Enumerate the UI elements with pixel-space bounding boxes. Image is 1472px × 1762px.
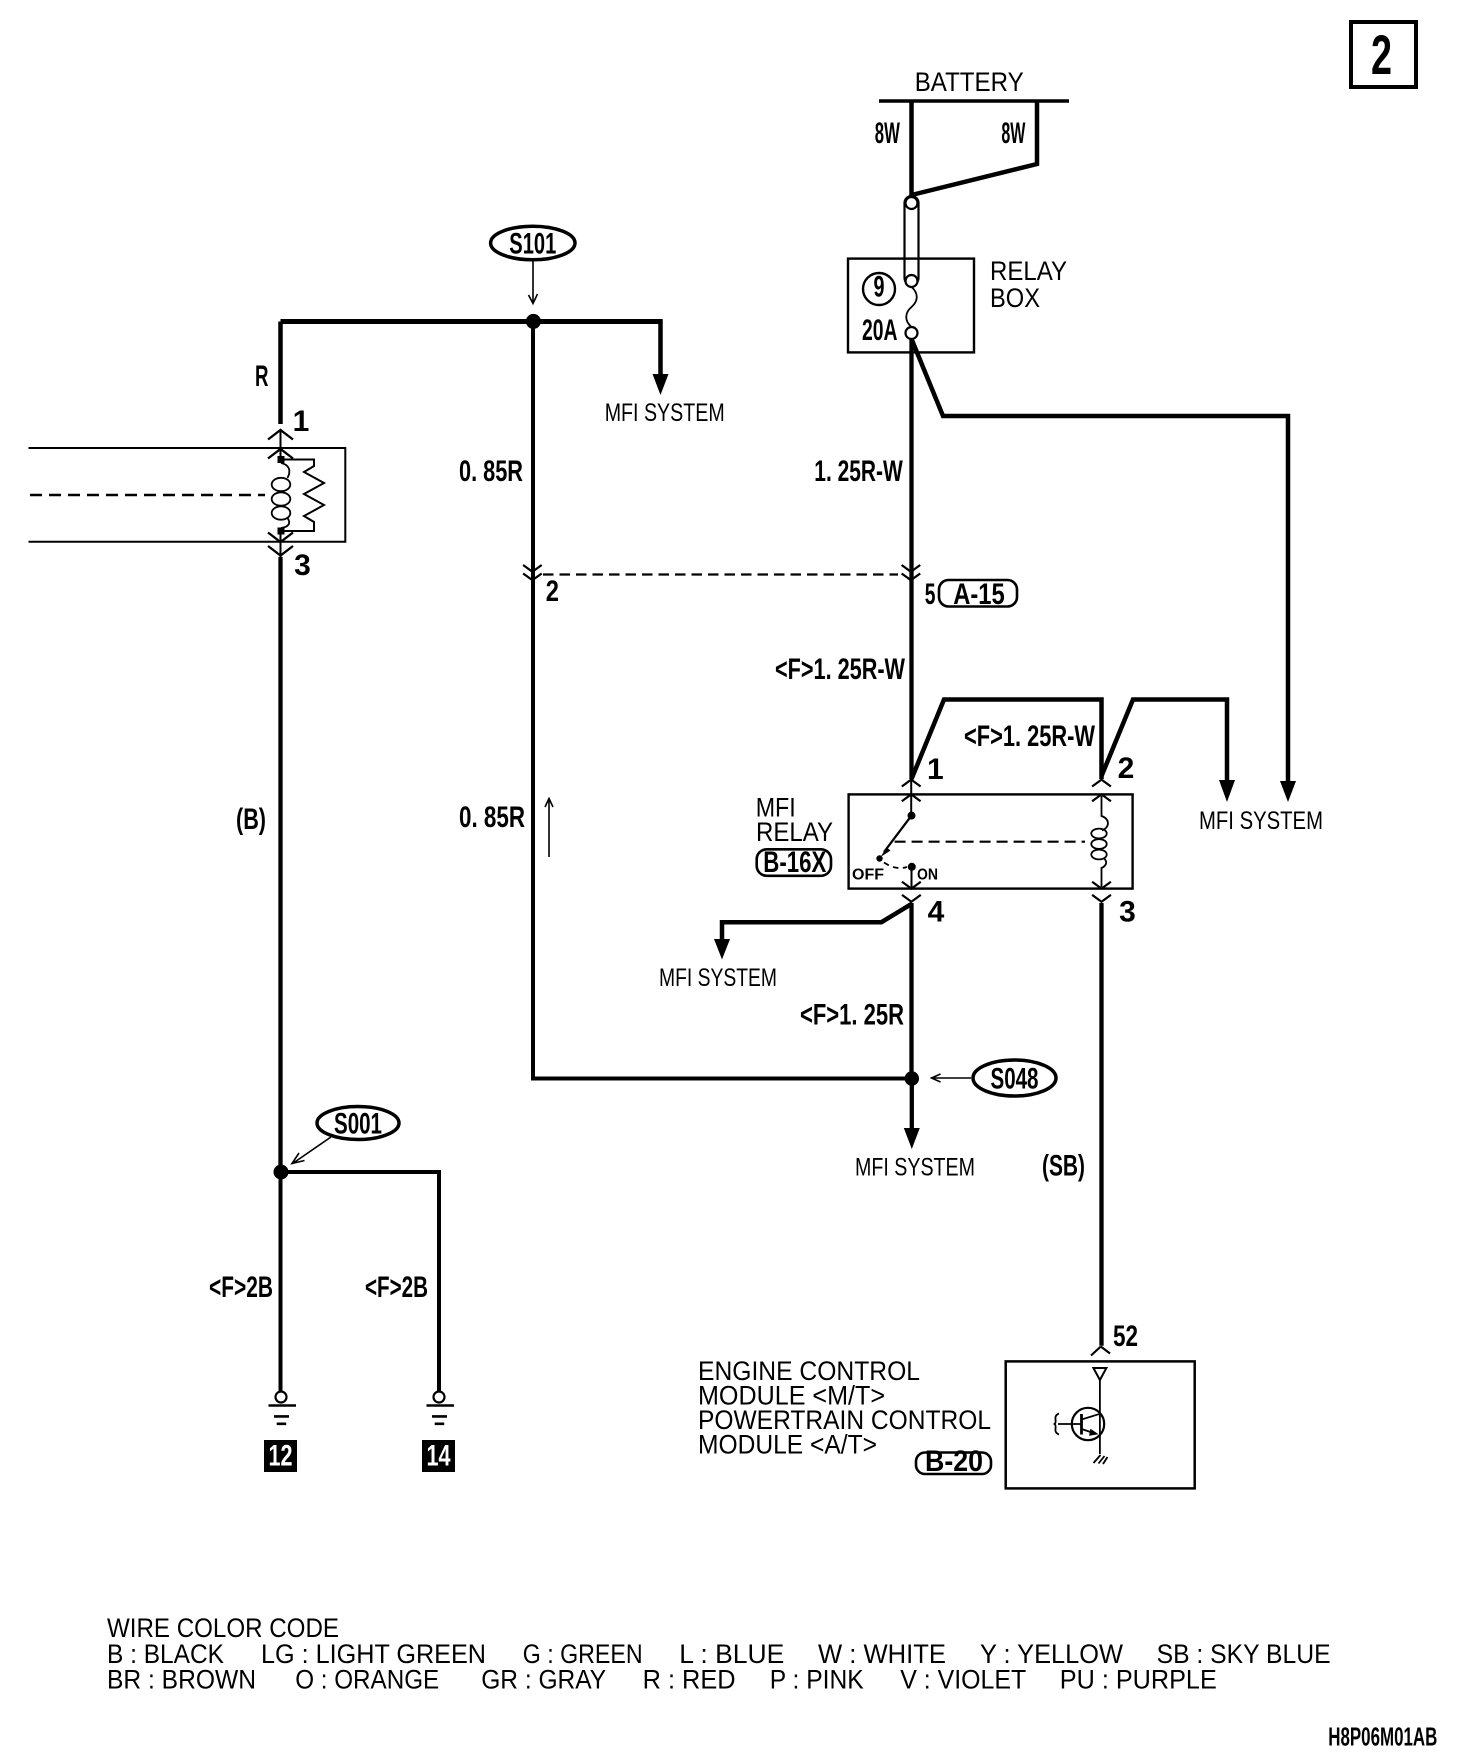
wire pin2 riser to MFI SYSTEM arrow [1102, 700, 1228, 782]
svg-text:0. 85R: 0. 85R [459, 801, 525, 834]
svg-text:20A: 20A [862, 314, 898, 347]
wire coil feed R [278, 322, 283, 425]
connector chevrons relay pin 2 [1092, 780, 1111, 802]
wire S001 branch right [281, 1172, 439, 1392]
connector chevrons coil pin 3 [268, 533, 293, 556]
svg-text:BOX: BOX [990, 283, 1040, 313]
junction S001 node [274, 1165, 289, 1180]
fuse number circle 9 [863, 273, 895, 305]
transistor collector diagonal [1082, 1414, 1101, 1420]
S048 pointer arrow [932, 1074, 972, 1082]
ON contact node [908, 863, 916, 871]
dashed link line into coil [30, 494, 265, 496]
legend WIRE COLOR CODE [107, 1613, 1331, 1695]
svg-text:1. 25R-W: 1. 25R-W [814, 455, 903, 488]
switch to pin 4 line [911, 867, 913, 888]
svg-text:5: 5 [925, 578, 936, 611]
svg-text:P : PINK: P : PINK [770, 1665, 864, 1695]
arrowhead MFI SYSTEM (relay pin2 branch) [1219, 780, 1235, 802]
relay coil loops [1091, 829, 1106, 839]
switch feed line [910, 780, 912, 814]
svg-text:2: 2 [1371, 23, 1392, 86]
svg-text:MFI SYSTEM: MFI SYSTEM [605, 399, 725, 427]
svg-text:O : ORANGE: O : ORANGE [295, 1665, 439, 1695]
connector chevrons coil pin 1 [268, 430, 293, 459]
primary winding coil loops [281, 463, 289, 478]
wire pin4 branch to MFI SYSTEM [722, 904, 912, 940]
wire relay box branch diagonal [912, 339, 1289, 784]
dashed connector line A-15 [543, 573, 898, 575]
transistor base bar [1080, 1414, 1083, 1435]
OFF contact node [876, 855, 882, 861]
svg-text:<F>2B: <F>2B [365, 1271, 428, 1304]
svg-text:8W: 8W [1001, 117, 1025, 150]
svg-text:BR : BROWN: BR : BROWN [107, 1665, 256, 1695]
fuse element squiggle [906, 287, 917, 327]
connector chevrons relay pin 1 [902, 780, 921, 802]
junction S101 node [526, 314, 541, 329]
junction S048 node [905, 1071, 919, 1085]
ground 14 symbol [427, 1392, 455, 1424]
svg-text:MFI SYSTEM: MFI SYSTEM [855, 1154, 975, 1182]
svg-text:1: 1 [293, 405, 310, 438]
arrowhead MFI SYSTEM top [653, 374, 669, 395]
connector chevrons relay pin 3 [1092, 882, 1111, 902]
relay actuation dashed line [895, 841, 1085, 843]
coil bottom terminal square [278, 528, 285, 535]
dashed throw arc to ON [884, 863, 907, 869]
wire battery right 8W [912, 101, 1038, 195]
base lead break squiggle [1055, 1414, 1060, 1435]
fusible link terminal top [906, 197, 918, 209]
ignition coil component box (open left) [29, 448, 346, 542]
svg-text:V : VIOLET: V : VIOLET [900, 1665, 1026, 1695]
connector label B-16X [757, 849, 831, 876]
switch pivot node [908, 812, 916, 820]
wire MFI SYSTEM drop top [658, 319, 663, 375]
ECM box outline [1006, 1361, 1195, 1488]
svg-text:S001: S001 [334, 1108, 382, 1141]
svg-text:9: 9 [874, 271, 885, 304]
ECM internal ground hatch [1094, 1455, 1108, 1464]
svg-text:12: 12 [269, 1440, 293, 1473]
label ENGINE CONTROL MODULE [698, 1356, 991, 1459]
splice S001 ellipse [317, 1107, 399, 1140]
svg-text:(B): (B) [236, 803, 266, 836]
wire into coil box [280, 430, 282, 457]
wire S001 down to ground 12 [279, 1172, 283, 1392]
svg-text:MFI SYSTEM: MFI SYSTEM [1199, 807, 1323, 835]
connector chevrons 5 (main wire) [902, 565, 921, 580]
wire pin4 down to S048 junction [909, 903, 913, 1079]
wire main bus at S101 [281, 319, 661, 324]
svg-text:S101: S101 [509, 228, 556, 261]
svg-text:<F>1. 25R-W: <F>1. 25R-W [775, 653, 905, 686]
svg-text:2: 2 [1118, 752, 1135, 785]
wire battery left 8W [909, 101, 914, 196]
svg-text:0. 85R: 0. 85R [459, 455, 523, 488]
svg-text:1: 1 [927, 753, 944, 786]
svg-text:R: R [255, 360, 269, 393]
ground 12 symbol [269, 1392, 297, 1424]
ECM input triangle [1093, 1368, 1106, 1380]
coil top terminal square [278, 456, 285, 463]
connector label B-20 [916, 1453, 991, 1475]
svg-text:4: 4 [928, 896, 945, 929]
connector label A-15 [939, 580, 1017, 607]
transistor emitter diagonal with arrow [1082, 1429, 1096, 1434]
page number box 2 [1351, 22, 1416, 87]
svg-text:MODULE <A/T>: MODULE <A/T> [698, 1429, 877, 1459]
wire 0.85R vertical [531, 322, 535, 1077]
fusible link capsule [905, 196, 919, 285]
relay coil lead in [1102, 796, 1108, 831]
svg-text:14: 14 [427, 1440, 451, 1473]
ground label 12 [264, 1440, 297, 1473]
transistor Q collector line [1099, 1380, 1101, 1454]
relay box outline [848, 259, 974, 353]
transistor base lead [1058, 1423, 1082, 1425]
svg-text:A-15: A-15 [953, 578, 1005, 611]
wire MFI SYSTEM drop below S048 [910, 1079, 914, 1130]
relay coil lead out [1102, 859, 1107, 888]
svg-text:GR : GRAY: GR : GRAY [481, 1665, 606, 1695]
svg-text:B-20: B-20 [925, 1445, 983, 1478]
splice S048 ellipse [973, 1060, 1056, 1096]
switch arm (OFF position) [884, 816, 912, 852]
current direction thin arrow [545, 799, 553, 858]
svg-text:8W: 8W [875, 117, 900, 150]
ground label 14 [422, 1440, 455, 1473]
svg-text:2: 2 [546, 575, 559, 608]
wire pin1 riser to bus [912, 700, 1102, 780]
svg-text:<F>1. 25R: <F>1. 25R [800, 999, 904, 1032]
wire (B) ground feed [278, 557, 282, 1172]
wire pin3 down to ECM [1099, 903, 1103, 1346]
resistor parallel to coil [281, 460, 324, 532]
svg-text:(SB): (SB) [1042, 1150, 1085, 1183]
wire 0.85R elbow to S048 junction [533, 1074, 912, 1079]
svg-text:RELAY: RELAY [990, 256, 1067, 286]
wire out of coil box [280, 534, 282, 557]
svg-text:B-16X: B-16X [763, 846, 826, 879]
svg-text:<F>2B: <F>2B [209, 1271, 273, 1304]
transistor Q circle [1072, 1408, 1104, 1440]
splice S101 ellipse [491, 226, 575, 260]
S101 pointer arrow [529, 260, 538, 304]
connector chevrons relay pin 4 [902, 882, 921, 902]
svg-text:R : RED: R : RED [643, 1665, 736, 1695]
svg-text:OFF: OFF [852, 867, 884, 884]
svg-text:3: 3 [1119, 896, 1136, 929]
svg-text:MFI SYSTEM: MFI SYSTEM [659, 964, 777, 992]
svg-text:H8P06M01AB: H8P06M01AB [1328, 1722, 1437, 1752]
svg-text:S048: S048 [991, 1063, 1039, 1096]
switch arm arrowhead [881, 848, 891, 858]
wire main feed 1.25R-W down from fuse [909, 339, 913, 779]
svg-text:<F>1. 25R-W: <F>1. 25R-W [964, 720, 1095, 753]
arrowhead MFI SYSTEM right branch [1280, 781, 1296, 802]
battery bus bar [879, 99, 1069, 103]
svg-text:BATTERY: BATTERY [915, 67, 1024, 97]
MFI relay box outline [849, 794, 1133, 888]
svg-text:RELAY: RELAY [756, 817, 833, 847]
svg-text:PU : PURPLE: PU : PURPLE [1060, 1665, 1217, 1695]
svg-text:3: 3 [294, 549, 311, 582]
S001 pointer arrow [292, 1137, 331, 1164]
connector chevrons 2 (S101 wire) [523, 565, 542, 580]
arrowhead MFI SYSTEM bottom [904, 1128, 920, 1149]
fusible link terminal bottom [906, 275, 918, 287]
fuse terminal lower circle [906, 327, 918, 339]
svg-text:52: 52 [1113, 1320, 1138, 1353]
arrowhead MFI SYSTEM (pin4 branch) [714, 939, 730, 960]
connector chevron pin 52 [1091, 1347, 1110, 1356]
